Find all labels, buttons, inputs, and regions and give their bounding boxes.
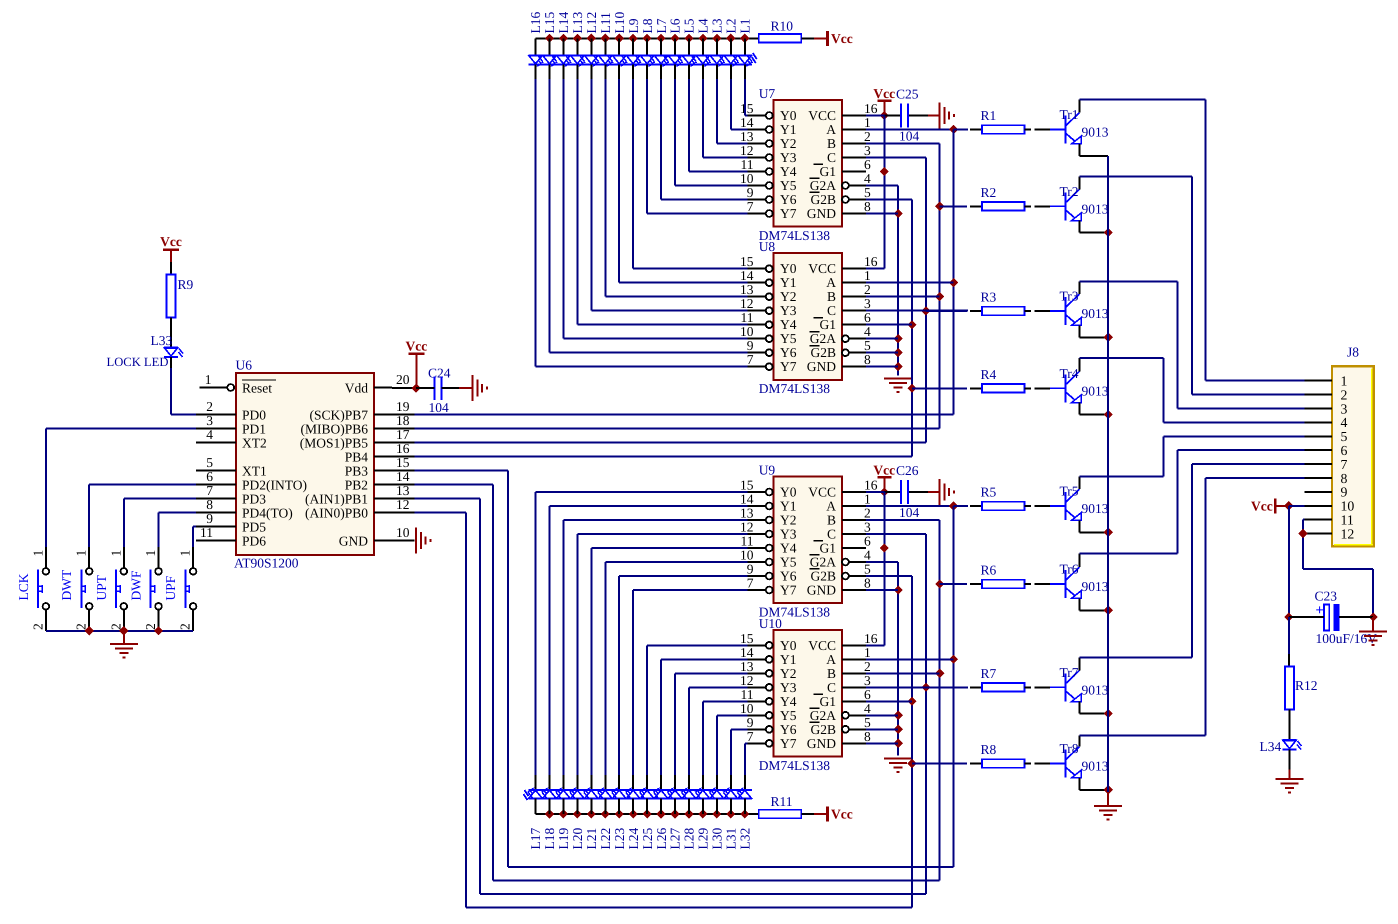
svg-text:2: 2 xyxy=(864,659,871,674)
svg-text:L20: L20 xyxy=(570,828,585,850)
svg-text:Tr4: Tr4 xyxy=(1060,366,1079,381)
svg-text:L22: L22 xyxy=(598,828,613,850)
svg-text:L24: L24 xyxy=(626,828,641,850)
svg-text:2: 2 xyxy=(178,623,193,630)
svg-text:L7: L7 xyxy=(654,18,669,33)
svg-text:G2B: G2B xyxy=(810,722,836,737)
svg-text:1: 1 xyxy=(108,550,123,557)
svg-text:+: + xyxy=(1316,602,1324,618)
svg-text:L11: L11 xyxy=(598,12,613,33)
svg-text:(AIN0)PB0: (AIN0)PB0 xyxy=(305,506,368,521)
svg-text:4: 4 xyxy=(864,171,871,186)
svg-text:Y1: Y1 xyxy=(780,499,797,514)
svg-text:U8: U8 xyxy=(759,239,776,254)
svg-text:9: 9 xyxy=(1341,485,1348,500)
svg-text:PD0: PD0 xyxy=(242,408,266,423)
svg-text:PB4: PB4 xyxy=(345,450,369,465)
svg-text:L12: L12 xyxy=(584,12,599,34)
svg-text:L23: L23 xyxy=(612,828,627,850)
svg-text:1: 1 xyxy=(30,550,45,557)
svg-text:9013: 9013 xyxy=(1082,683,1109,698)
svg-text:3: 3 xyxy=(864,143,871,158)
svg-text:LOCK LED: LOCK LED xyxy=(107,355,169,369)
svg-text:3: 3 xyxy=(864,296,871,311)
svg-text:G2A: G2A xyxy=(810,555,836,570)
svg-text:10: 10 xyxy=(740,324,754,339)
svg-text:PB2: PB2 xyxy=(345,478,368,493)
svg-text:8: 8 xyxy=(1341,471,1348,486)
svg-text:12: 12 xyxy=(740,143,754,158)
svg-text:G1: G1 xyxy=(820,694,837,709)
svg-text:B: B xyxy=(827,666,836,681)
svg-text:VCC: VCC xyxy=(808,261,836,276)
svg-text:GND: GND xyxy=(339,534,368,549)
svg-text:GND: GND xyxy=(807,206,836,221)
svg-text:C: C xyxy=(827,303,836,318)
svg-text:1: 1 xyxy=(74,550,89,557)
svg-text:R7: R7 xyxy=(981,666,997,681)
svg-text:100uF/16V: 100uF/16V xyxy=(1316,631,1378,646)
svg-text:Y2: Y2 xyxy=(780,289,797,304)
svg-text:PB3: PB3 xyxy=(345,464,369,479)
svg-text:Y3: Y3 xyxy=(780,527,797,542)
svg-text:16: 16 xyxy=(864,631,878,646)
svg-text:UPT: UPT xyxy=(94,574,109,600)
svg-text:Y6: Y6 xyxy=(780,345,797,360)
svg-text:5: 5 xyxy=(864,338,871,353)
svg-text:4: 4 xyxy=(206,427,213,442)
svg-text:(SCK)PB7: (SCK)PB7 xyxy=(309,408,368,423)
svg-text:C: C xyxy=(827,150,836,165)
svg-text:Y3: Y3 xyxy=(780,303,797,318)
svg-text:AT90S1200: AT90S1200 xyxy=(234,556,299,571)
svg-text:9: 9 xyxy=(747,338,754,353)
svg-text:G1: G1 xyxy=(820,541,837,556)
svg-text:18: 18 xyxy=(396,413,410,428)
svg-text:3: 3 xyxy=(864,520,871,535)
svg-text:6: 6 xyxy=(206,469,213,484)
svg-text:PD6: PD6 xyxy=(242,534,266,549)
svg-text:L4: L4 xyxy=(696,18,711,33)
svg-text:LCK: LCK xyxy=(16,573,31,600)
svg-text:R9: R9 xyxy=(178,277,194,292)
svg-text:B: B xyxy=(827,136,836,151)
svg-text:9013: 9013 xyxy=(1082,501,1109,516)
svg-text:VCC: VCC xyxy=(808,638,836,653)
svg-text:L13: L13 xyxy=(570,12,585,34)
svg-text:PD5: PD5 xyxy=(242,520,266,535)
svg-text:14: 14 xyxy=(740,268,754,283)
svg-text:Vcc: Vcc xyxy=(406,339,428,354)
svg-text:Vcc: Vcc xyxy=(831,31,853,46)
svg-text:2: 2 xyxy=(74,623,89,630)
svg-text:2: 2 xyxy=(30,623,45,630)
svg-text:4: 4 xyxy=(864,324,871,339)
svg-text:J8: J8 xyxy=(1347,345,1359,360)
svg-text:L25: L25 xyxy=(640,828,655,850)
svg-text:Y0: Y0 xyxy=(780,485,797,500)
svg-text:Y6: Y6 xyxy=(780,569,797,584)
svg-text:R4: R4 xyxy=(981,367,997,382)
svg-text:1: 1 xyxy=(864,268,871,283)
svg-text:DWT: DWT xyxy=(59,569,74,600)
svg-text:9013: 9013 xyxy=(1082,759,1109,774)
svg-text:1: 1 xyxy=(1341,374,1348,389)
svg-text:L2: L2 xyxy=(724,19,739,34)
svg-text:2: 2 xyxy=(864,282,871,297)
svg-text:L9: L9 xyxy=(626,18,641,33)
svg-text:1: 1 xyxy=(864,115,871,130)
svg-text:15: 15 xyxy=(740,254,754,269)
svg-text:A: A xyxy=(826,652,836,667)
svg-text:16: 16 xyxy=(864,478,878,493)
svg-text:5: 5 xyxy=(864,562,871,577)
svg-text:Vcc: Vcc xyxy=(873,463,895,478)
svg-text:Reset: Reset xyxy=(242,381,272,396)
svg-text:8: 8 xyxy=(864,199,871,214)
svg-text:L3: L3 xyxy=(710,18,725,33)
svg-text:9013: 9013 xyxy=(1082,384,1109,399)
svg-text:L10: L10 xyxy=(612,12,627,34)
svg-text:PD3: PD3 xyxy=(242,492,266,507)
svg-text:PD1: PD1 xyxy=(242,422,266,437)
svg-text:Vcc: Vcc xyxy=(1251,498,1273,513)
svg-text:2: 2 xyxy=(864,506,871,521)
svg-text:2: 2 xyxy=(206,399,213,414)
svg-text:3: 3 xyxy=(864,673,871,688)
svg-text:Y3: Y3 xyxy=(780,680,797,695)
svg-text:UPF: UPF xyxy=(163,575,178,600)
svg-text:VCC: VCC xyxy=(808,485,836,500)
svg-text:6: 6 xyxy=(1341,443,1348,458)
svg-text:7: 7 xyxy=(206,483,213,498)
svg-text:20: 20 xyxy=(396,372,410,387)
svg-text:A: A xyxy=(826,122,836,137)
svg-text:L34: L34 xyxy=(1260,739,1282,754)
svg-text:5: 5 xyxy=(1341,429,1348,444)
svg-text:16: 16 xyxy=(864,254,878,269)
svg-text:6: 6 xyxy=(864,687,871,702)
svg-text:7: 7 xyxy=(747,352,754,367)
svg-text:14: 14 xyxy=(740,492,754,507)
svg-text:Tr7: Tr7 xyxy=(1060,665,1079,680)
svg-text:7: 7 xyxy=(747,199,754,214)
svg-text:3: 3 xyxy=(1341,401,1348,416)
svg-text:5: 5 xyxy=(206,455,213,470)
svg-text:Y6: Y6 xyxy=(780,192,797,207)
svg-text:Tr8: Tr8 xyxy=(1060,741,1079,756)
svg-text:Y7: Y7 xyxy=(780,206,797,221)
svg-text:L30: L30 xyxy=(710,828,725,850)
svg-text:Y7: Y7 xyxy=(780,583,797,598)
svg-text:C24: C24 xyxy=(428,366,451,381)
svg-text:L19: L19 xyxy=(556,828,571,850)
svg-text:6: 6 xyxy=(864,310,871,325)
svg-text:Vcc: Vcc xyxy=(160,234,182,249)
svg-text:L1: L1 xyxy=(737,19,752,34)
svg-text:GND: GND xyxy=(807,736,836,751)
svg-text:L5: L5 xyxy=(682,18,697,33)
svg-text:13: 13 xyxy=(740,506,754,521)
svg-text:13: 13 xyxy=(396,483,410,498)
svg-text:Vcc: Vcc xyxy=(831,807,853,822)
svg-text:Y6: Y6 xyxy=(780,722,797,737)
svg-text:GND: GND xyxy=(807,583,836,598)
svg-text:7: 7 xyxy=(747,576,754,591)
svg-text:L8: L8 xyxy=(640,18,655,33)
svg-text:15: 15 xyxy=(740,101,754,116)
svg-text:R6: R6 xyxy=(981,563,997,578)
svg-text:9013: 9013 xyxy=(1082,202,1109,217)
svg-text:R8: R8 xyxy=(981,742,997,757)
svg-text:C26: C26 xyxy=(896,463,919,478)
svg-text:1: 1 xyxy=(178,550,193,557)
svg-text:11: 11 xyxy=(741,310,754,325)
svg-text:9: 9 xyxy=(747,562,754,577)
svg-text:Y1: Y1 xyxy=(780,652,797,667)
svg-text:Y0: Y0 xyxy=(780,108,797,123)
svg-text:B: B xyxy=(827,289,836,304)
svg-text:PD2(INTO): PD2(INTO) xyxy=(242,478,307,493)
svg-text:L16: L16 xyxy=(528,12,543,34)
svg-text:Y7: Y7 xyxy=(780,359,797,374)
svg-text:Y1: Y1 xyxy=(780,122,797,137)
svg-text:U9: U9 xyxy=(759,463,776,478)
svg-text:8: 8 xyxy=(206,497,213,512)
svg-text:11: 11 xyxy=(741,157,754,172)
svg-text:16: 16 xyxy=(864,101,878,116)
svg-text:3: 3 xyxy=(206,413,213,428)
svg-text:9013: 9013 xyxy=(1082,306,1109,321)
svg-text:U10: U10 xyxy=(759,616,782,631)
svg-text:11: 11 xyxy=(1341,513,1354,528)
svg-text:G1: G1 xyxy=(820,164,837,179)
svg-text:VCC: VCC xyxy=(808,108,836,123)
svg-text:(MOS1)PB5: (MOS1)PB5 xyxy=(300,436,369,451)
svg-text:19: 19 xyxy=(396,399,410,414)
svg-text:Tr6: Tr6 xyxy=(1060,562,1079,577)
svg-text:10: 10 xyxy=(396,525,410,540)
svg-text:9013: 9013 xyxy=(1082,579,1109,594)
svg-text:12: 12 xyxy=(396,497,410,512)
svg-text:1: 1 xyxy=(143,550,158,557)
svg-text:11: 11 xyxy=(741,687,754,702)
svg-text:(MIBO)PB6: (MIBO)PB6 xyxy=(300,422,368,437)
svg-text:Y5: Y5 xyxy=(780,331,797,346)
svg-text:1: 1 xyxy=(205,372,212,387)
svg-text:L29: L29 xyxy=(696,828,711,850)
svg-text:L17: L17 xyxy=(528,828,543,850)
svg-text:Y4: Y4 xyxy=(780,317,797,332)
svg-text:R1: R1 xyxy=(981,108,997,123)
svg-text:10: 10 xyxy=(740,171,754,186)
svg-text:12: 12 xyxy=(740,673,754,688)
svg-text:13: 13 xyxy=(740,659,754,674)
svg-text:12: 12 xyxy=(740,296,754,311)
svg-text:Y4: Y4 xyxy=(780,694,797,709)
svg-text:12: 12 xyxy=(740,520,754,535)
svg-text:14: 14 xyxy=(740,115,754,130)
svg-text:R5: R5 xyxy=(981,485,997,500)
svg-text:Tr2: Tr2 xyxy=(1060,184,1079,199)
svg-text:C: C xyxy=(827,680,836,695)
svg-text:L31: L31 xyxy=(724,828,739,850)
svg-text:Y5: Y5 xyxy=(780,555,797,570)
svg-text:1: 1 xyxy=(864,492,871,507)
svg-text:7: 7 xyxy=(747,729,754,744)
svg-text:9: 9 xyxy=(747,185,754,200)
svg-text:104: 104 xyxy=(899,505,920,520)
svg-text:2: 2 xyxy=(864,129,871,144)
svg-text:9: 9 xyxy=(747,715,754,730)
svg-text:Y0: Y0 xyxy=(780,261,797,276)
svg-text:R10: R10 xyxy=(771,19,794,34)
svg-text:L21: L21 xyxy=(584,828,599,850)
svg-text:G2A: G2A xyxy=(810,178,836,193)
svg-text:G2B: G2B xyxy=(810,192,836,207)
svg-text:DWF: DWF xyxy=(129,570,144,600)
svg-text:Y5: Y5 xyxy=(780,708,797,723)
svg-text:G2A: G2A xyxy=(810,331,836,346)
svg-text:R3: R3 xyxy=(981,290,997,305)
svg-text:10: 10 xyxy=(740,701,754,716)
svg-text:2: 2 xyxy=(143,623,158,630)
svg-text:C25: C25 xyxy=(896,87,919,102)
svg-text:5: 5 xyxy=(864,715,871,730)
svg-text:G1: G1 xyxy=(820,317,837,332)
svg-text:14: 14 xyxy=(396,469,410,484)
svg-text:104: 104 xyxy=(899,129,920,144)
svg-text:L33: L33 xyxy=(151,333,173,348)
svg-text:Y5: Y5 xyxy=(780,178,797,193)
svg-text:1: 1 xyxy=(864,645,871,660)
svg-text:B: B xyxy=(827,513,836,528)
svg-text:XT1: XT1 xyxy=(242,464,267,479)
svg-text:Y7: Y7 xyxy=(780,736,797,751)
svg-text:2: 2 xyxy=(108,623,123,630)
svg-text:L26: L26 xyxy=(654,828,669,850)
svg-text:R11: R11 xyxy=(771,794,793,809)
svg-text:14: 14 xyxy=(740,645,754,660)
svg-text:U6: U6 xyxy=(236,358,253,373)
svg-text:L15: L15 xyxy=(542,12,557,34)
svg-text:DM74LS138: DM74LS138 xyxy=(759,758,831,773)
svg-text:2: 2 xyxy=(1341,387,1348,402)
svg-text:15: 15 xyxy=(740,631,754,646)
svg-text:Vcc: Vcc xyxy=(873,86,895,101)
svg-text:Y4: Y4 xyxy=(780,541,797,556)
svg-text:8: 8 xyxy=(864,729,871,744)
svg-text:L6: L6 xyxy=(668,18,683,33)
svg-text:Y4: Y4 xyxy=(780,164,797,179)
svg-text:7: 7 xyxy=(1341,457,1348,472)
svg-text:L27: L27 xyxy=(668,828,683,850)
svg-text:G2B: G2B xyxy=(810,345,836,360)
svg-text:DM74LS138: DM74LS138 xyxy=(759,381,831,396)
svg-text:G2B: G2B xyxy=(810,569,836,584)
svg-text:Tr1: Tr1 xyxy=(1060,107,1079,122)
svg-text:A: A xyxy=(826,275,836,290)
svg-text:U7: U7 xyxy=(759,86,776,101)
svg-text:16: 16 xyxy=(396,441,410,456)
svg-text:13: 13 xyxy=(740,129,754,144)
svg-text:Y2: Y2 xyxy=(780,666,797,681)
svg-text:C: C xyxy=(827,527,836,542)
svg-text:GND: GND xyxy=(807,359,836,374)
svg-text:4: 4 xyxy=(864,701,871,716)
svg-text:13: 13 xyxy=(740,282,754,297)
svg-text:8: 8 xyxy=(864,576,871,591)
svg-text:Y0: Y0 xyxy=(780,638,797,653)
svg-text:10: 10 xyxy=(1341,499,1355,514)
svg-text:6: 6 xyxy=(864,534,871,549)
svg-text:8: 8 xyxy=(864,352,871,367)
svg-text:Y1: Y1 xyxy=(780,275,797,290)
svg-text:9: 9 xyxy=(206,511,213,526)
svg-text:XT2: XT2 xyxy=(242,436,267,451)
svg-text:Tr3: Tr3 xyxy=(1060,289,1079,304)
svg-text:Vdd: Vdd xyxy=(345,381,368,396)
svg-text:L14: L14 xyxy=(556,12,571,34)
svg-text:12: 12 xyxy=(1341,526,1355,541)
svg-text:R2: R2 xyxy=(981,185,997,200)
svg-text:G2A: G2A xyxy=(810,708,836,723)
svg-text:(AIN1)PB1: (AIN1)PB1 xyxy=(305,492,368,507)
svg-text:Tr5: Tr5 xyxy=(1060,484,1079,499)
svg-text:17: 17 xyxy=(396,427,410,442)
svg-text:L32: L32 xyxy=(737,828,752,850)
svg-text:Y2: Y2 xyxy=(780,513,797,528)
svg-text:4: 4 xyxy=(864,548,871,563)
svg-text:PD4(TO): PD4(TO) xyxy=(242,506,293,521)
svg-text:R12: R12 xyxy=(1295,678,1318,693)
svg-text:L28: L28 xyxy=(682,828,697,850)
svg-text:Y3: Y3 xyxy=(780,150,797,165)
svg-text:4: 4 xyxy=(1341,415,1348,430)
svg-text:9013: 9013 xyxy=(1082,125,1109,140)
svg-text:10: 10 xyxy=(740,548,754,563)
svg-text:15: 15 xyxy=(740,478,754,493)
svg-text:6: 6 xyxy=(864,157,871,172)
svg-text:11: 11 xyxy=(200,525,213,540)
svg-text:L18: L18 xyxy=(542,828,557,850)
svg-text:104: 104 xyxy=(429,400,450,415)
svg-text:Y2: Y2 xyxy=(780,136,797,151)
svg-text:15: 15 xyxy=(396,455,410,470)
svg-text:11: 11 xyxy=(741,534,754,549)
svg-text:5: 5 xyxy=(864,185,871,200)
svg-text:A: A xyxy=(826,499,836,514)
